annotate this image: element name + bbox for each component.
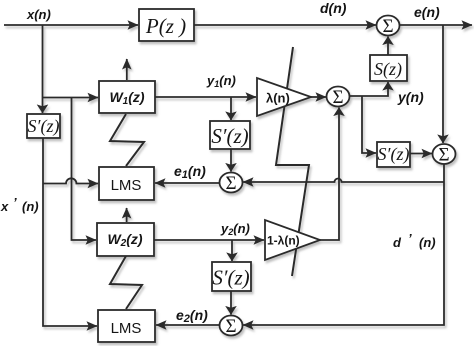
block P(z): [139, 9, 194, 41]
wire: x'(n) branch into upper LMS with hop: [43, 178, 98, 183]
block S(z): [370, 55, 407, 81]
wire: S'(z) output down into e2 sum: [230, 291, 232, 315]
wire: d'(n) branch left into e1 sum with hop: [243, 179, 444, 182]
wire: x(n) branch to W1(z) input: [43, 97, 99, 99]
block W2(z): [97, 223, 154, 256]
wire: zigzag adaptation link LMS to W2: [110, 256, 142, 309]
block LMS lower: [98, 310, 155, 342]
svg-text:S′(z): S′(z): [212, 266, 249, 290]
svg-text:S′(z): S′(z): [211, 124, 248, 148]
svg-text:d(n): d(n): [320, 0, 347, 16]
wire: x(n) branch down to S'(z) left: [42, 25, 44, 113]
svg-text:Σ: Σ: [438, 145, 449, 166]
summer: middle sum (y(n)): [327, 87, 350, 109]
block S'(z) left: [27, 114, 60, 138]
svg-text:Σ: Σ: [225, 316, 236, 337]
svg-text:x’(n): x’(n): [0, 195, 39, 214]
summer: e1 sum: [220, 173, 243, 195]
wire: y1 branch down into S'(z): [230, 97, 232, 120]
wire: e1 sum output into LMS: [155, 182, 220, 184]
svg-text:y(n): y(n): [397, 89, 424, 105]
wire: x'(n) line from S'(z) down to LMS blocks: [43, 138, 97, 326]
wire: lambda output into middle sum: [311, 96, 326, 98]
wire: branch down to W2(z) input: [72, 98, 97, 241]
gain 1-lambda(n) triangle: [265, 220, 320, 260]
svg-text:S(z): S(z): [374, 59, 402, 80]
block S'(z) under y2: [212, 262, 251, 291]
svg-text:e(n): e(n): [414, 4, 440, 20]
wire: e2 sum output into lower LMS: [156, 324, 220, 326]
wire: right S'(z) output into right sum: [410, 153, 432, 155]
svg-text:Σ: Σ: [382, 16, 393, 37]
wire: ganged control slash through gain blocks: [276, 47, 309, 276]
gain lambda(n) triangle: [257, 78, 311, 116]
wire: y(n) branch into right S'(z): [362, 96, 376, 153]
svg-text:Σ: Σ: [225, 173, 236, 194]
svg-text:LMS: LMS: [111, 177, 142, 194]
svg-text:LMS: LMS: [111, 320, 142, 337]
wire: e(n) output line: [399, 24, 472, 26]
wire: e(n) branch down into right sum: [442, 25, 444, 143]
svg-text:d’(n): d’(n): [393, 231, 436, 250]
wire: adaptation arrow out of W2 top: [126, 208, 128, 222]
block S'(z) right: [377, 142, 410, 167]
wire: y1(n) line from W1 to lambda gain: [155, 96, 256, 98]
svg-text:S′(z): S′(z): [378, 144, 410, 165]
svg-text:y1(n): y1(n): [206, 73, 236, 89]
block S'(z) under y1: [210, 121, 250, 149]
summer: top sum (e(n)): [377, 16, 400, 38]
block W1(z): [99, 81, 155, 113]
svg-text:1-λ(n): 1-λ(n): [267, 234, 300, 248]
block LMS upper: [99, 167, 154, 200]
wire: y2 branch down into S'(z): [231, 240, 233, 261]
svg-text:λ(n): λ(n): [266, 91, 290, 106]
wire: x(n) input line into P(z): [4, 24, 138, 26]
wire: S(z) output up into top sum: [387, 37, 389, 56]
svg-text:e1(n): e1(n): [174, 163, 206, 181]
svg-text:P(z ): P(z ): [145, 14, 186, 38]
wire: y2(n) line from W2 to 1-lambda gain: [154, 239, 264, 241]
svg-text:S′(z): S′(z): [28, 116, 60, 137]
svg-text:y2(n): y2(n): [220, 221, 250, 237]
summer: e2 sum: [220, 316, 243, 338]
wire: adaptation arrow out of W1 top: [126, 59, 128, 80]
svg-text:x(n): x(n): [26, 7, 51, 22]
wire: zigzag adaptation link LMS to W1: [110, 114, 144, 166]
wire: d'(n) feedback down and left into e2 sum: [243, 165, 444, 326]
svg-text:e2(n): e2(n): [176, 307, 208, 325]
summer: right sum (d'(n)): [433, 144, 456, 166]
svg-text:Σ: Σ: [332, 87, 343, 108]
wire: S'(z) output down into e1 sum: [230, 149, 232, 172]
wire: y(n) line up into S(z): [349, 82, 388, 96]
wire: P(z) output d(n) into sum: [194, 24, 376, 26]
wire: 1-lambda output up into middle sum: [320, 108, 339, 241]
